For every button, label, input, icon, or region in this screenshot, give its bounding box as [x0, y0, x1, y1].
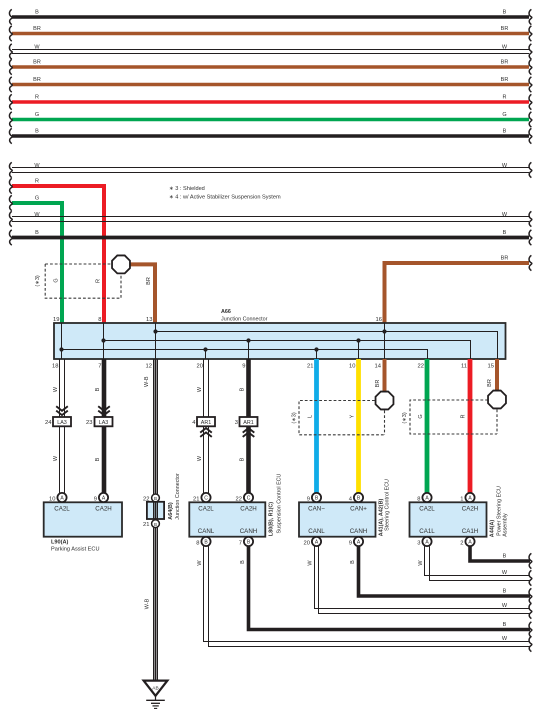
svg-text:24: 24: [45, 420, 52, 426]
svg-text:(∗3): (∗3): [35, 275, 41, 286]
svg-text:B: B: [154, 522, 157, 527]
internal wire drop to A66 pin 20: [205, 350, 207, 360]
terminal 8 (B) suspension: [196, 537, 210, 546]
wire BR (top group row 4): [9, 59, 531, 74]
svg-text:W: W: [197, 455, 203, 461]
internal wire drop to A66 pin 21: [316, 350, 318, 360]
bus line 3 inside A66 (CANL bus, pins 19-20-21-22): [62, 350, 428, 360]
ground symbol AB: [144, 681, 168, 709]
wire B (top group row 1): [9, 9, 531, 24]
label A44(A) Power Steering ECU Assembly: [489, 486, 508, 537]
junction dot at (155.5,331.5): [153, 329, 157, 333]
terminal 9 (B) steering: [307, 493, 321, 502]
wire B from suspension terminal 7 to right edge: [240, 546, 532, 637]
junction connector A66 box: [54, 309, 506, 359]
wire BR from shield octagon to junction pin 13: [126, 264, 155, 323]
svg-text:LA3: LA3: [57, 420, 67, 426]
wire W (group 2 row 4): [9, 211, 531, 226]
svg-text:3: 3: [235, 420, 238, 426]
wire Y pin 10 to steering ECU: [356, 359, 361, 493]
svg-text:16: 16: [376, 317, 382, 323]
svg-text:BR: BR: [375, 380, 381, 388]
svg-text:CANL: CANL: [198, 528, 215, 535]
svg-text:BR: BR: [487, 379, 493, 387]
svg-text:2: 2: [460, 540, 463, 546]
shield ground symbol (octagon) top section: [112, 255, 130, 273]
wire B (top group row 8): [9, 128, 531, 143]
junction dot at (248.5,340.5): [246, 338, 250, 342]
svg-text:L: L: [307, 415, 313, 418]
svg-text:R: R: [35, 178, 39, 184]
pin numbers below A66: [52, 364, 494, 370]
svg-text:L80(B), R1(C): L80(B), R1(C): [268, 502, 274, 536]
junction dot at (103.5,340.5): [101, 338, 105, 342]
svg-text:20: 20: [304, 540, 310, 546]
svg-text:21: 21: [193, 496, 199, 502]
svg-text:BR: BR: [33, 26, 41, 32]
shield dashed box (*3) around G and R wires (power steering): [402, 400, 497, 434]
wire R (group 2, turns down to junction pin 8): [9, 178, 104, 323]
svg-text:9: 9: [242, 364, 245, 370]
shield ground symbol (octagon) steering: [376, 392, 394, 410]
terminal 3 (A) power steering: [417, 537, 431, 546]
wire W from power steering terminal 3 to right edge: [418, 546, 532, 585]
svg-text:B: B: [154, 496, 157, 501]
wire G (top group row 7): [9, 112, 531, 127]
wire BR pin 14 to shield octagon: [375, 359, 385, 391]
svg-text:22: 22: [418, 364, 424, 370]
svg-text:W: W: [418, 560, 424, 566]
svg-text:Parking Assist ECU: Parking Assist ECU: [51, 547, 100, 553]
svg-text:CA2H: CA2H: [462, 506, 479, 513]
svg-text:AR1: AR1: [201, 420, 212, 426]
svg-text:20: 20: [197, 364, 203, 370]
wire B pin 9 to suspension ECU: [239, 359, 248, 493]
svg-text:CA2H: CA2H: [240, 506, 257, 513]
svg-text:W: W: [502, 636, 508, 642]
internal wire through A66 pins 8/7: [103, 323, 105, 359]
svg-text:Junction Connector: Junction Connector: [175, 473, 181, 520]
svg-text:B: B: [95, 387, 101, 391]
svg-text:Suspension Control ECU: Suspension Control ECU: [276, 473, 282, 533]
svg-text:CAN−: CAN−: [308, 506, 325, 513]
svg-text:BR: BR: [33, 77, 41, 83]
svg-text:CAN+: CAN+: [350, 506, 367, 513]
svg-text:A64(B): A64(B): [168, 502, 174, 520]
svg-text:19: 19: [53, 317, 59, 323]
svg-text:R: R: [503, 94, 507, 100]
wire R pin 11 to power steering ECU: [468, 359, 473, 493]
terminal 9 (A) steering: [349, 537, 363, 546]
label L90(A) Parking Assist ECU: [51, 540, 100, 553]
svg-text:(∗3): (∗3): [402, 412, 408, 423]
svg-text:23: 23: [86, 420, 92, 426]
svg-text:BR: BR: [501, 26, 509, 32]
ECU box A44(A) Power Steering ECU Assembly: [410, 502, 487, 536]
svg-text:CA1H: CA1H: [462, 528, 479, 535]
svg-text:∗ 3 : Shielded: ∗ 3 : Shielded: [169, 186, 205, 192]
pin numbers on top of A66: [53, 317, 382, 323]
junction dot at (316.5,349.5): [314, 347, 318, 351]
svg-text:W: W: [502, 163, 508, 169]
svg-text:∗ 4 : w/ Active Stabilizer Sus: ∗ 4 : w/ Active Stabilizer Suspension Sy…: [169, 195, 281, 201]
wire BR (from right edge, turns down to junction pin 16): [385, 255, 532, 323]
internal wire through A66 pins 13/12: [155, 323, 157, 359]
label L80(B) R1(C) Suspension Control ECU: [268, 473, 282, 536]
bus line 2 inside A66 (CANH bus, pins 8-9-10-11): [104, 341, 471, 360]
svg-text:G: G: [35, 195, 39, 201]
svg-text:W: W: [197, 560, 203, 566]
svg-text:G: G: [53, 278, 59, 282]
shield dashed box (*3) around L and Y wires: [291, 401, 384, 435]
svg-text:8: 8: [98, 317, 101, 323]
svg-text:W: W: [34, 163, 40, 169]
svg-text:B: B: [35, 128, 39, 134]
wire BR (top group row 2): [9, 26, 531, 41]
svg-text:CA1L: CA1L: [419, 528, 435, 535]
svg-text:12: 12: [146, 364, 152, 370]
wire W (top group row 3): [9, 44, 531, 59]
connector AR1 pin 3 (B wire): [235, 417, 258, 437]
svg-text:7: 7: [239, 540, 242, 546]
internal wire drop to A66 pin 10: [358, 341, 360, 360]
junction dot at (61.5,349.5): [59, 347, 63, 351]
wire G pin 22 to power steering ECU: [425, 359, 430, 493]
svg-text:Junction Connector: Junction Connector: [221, 317, 268, 323]
svg-text:G: G: [418, 414, 424, 418]
svg-text:W: W: [307, 560, 313, 566]
svg-text:21: 21: [143, 522, 149, 528]
svg-text:W: W: [53, 386, 59, 392]
terminal 8 (A) power steering: [417, 493, 431, 502]
wire W-B through A64(B): [154, 502, 158, 519]
svg-text:W: W: [502, 570, 508, 576]
svg-text:R: R: [95, 279, 101, 283]
svg-text:W-B: W-B: [144, 598, 150, 609]
svg-text:W: W: [53, 455, 59, 461]
svg-text:B: B: [350, 560, 356, 564]
terminal 7 (B) suspension: [239, 537, 253, 546]
wire R (top group row 6): [9, 94, 531, 109]
junction dot at (384.5,331.5): [382, 329, 386, 333]
svg-text:G: G: [35, 112, 39, 118]
svg-text:R: R: [460, 414, 466, 418]
wire W from suspension terminal 8 to right edge: [197, 546, 532, 651]
svg-text:B: B: [503, 588, 507, 594]
svg-text:W: W: [34, 44, 40, 50]
internal wire drop to A66 pin 9: [248, 341, 250, 360]
wire W pin 18 to parking assist ECU: [53, 359, 65, 493]
ECU box A41(A),A42(B) Steering Control ECU: [299, 502, 376, 536]
svg-text:C: C: [247, 496, 251, 502]
ECU box L80(B),R1(C) Suspension Control ECU: [189, 502, 265, 536]
svg-text:15: 15: [488, 364, 494, 370]
svg-text:G: G: [502, 112, 506, 118]
svg-text:22: 22: [236, 496, 242, 502]
wire B from power steering terminal 2 to right edge: [470, 546, 532, 568]
svg-text:11: 11: [461, 364, 467, 370]
shield dashed box (*3) around G and R wires: [35, 264, 121, 298]
terminal 2 (A) power steering: [460, 537, 474, 546]
wire G (group 2, turns down to junction pin 19): [9, 195, 62, 323]
svg-text:8: 8: [196, 540, 199, 546]
wire BR (top group row 5): [9, 77, 531, 92]
terminal 20 (A) steering: [304, 537, 322, 546]
terminal 22 (B) of A64(B): [143, 494, 159, 502]
internal wire through A66 pins 19/18: [61, 323, 63, 359]
svg-text:10: 10: [49, 496, 55, 502]
svg-text:AB: AB: [152, 686, 158, 692]
svg-text:AR1: AR1: [243, 420, 254, 426]
svg-text:B: B: [503, 622, 507, 628]
svg-text:CA2L: CA2L: [54, 506, 70, 513]
svg-text:B: B: [239, 457, 245, 461]
svg-text:B: B: [503, 553, 507, 559]
connector LA3 pin 23 (B wire): [86, 406, 112, 426]
svg-text:9: 9: [94, 496, 97, 502]
junction dot at (205.5,349.5): [203, 347, 207, 351]
bus line 1 inside A66 (shield bus, pins 13-16-14-15): [156, 332, 498, 360]
svg-text:CANL: CANL: [308, 528, 325, 535]
svg-text:Assembly: Assembly: [502, 513, 508, 537]
svg-text:BR: BR: [33, 59, 41, 65]
svg-text:1: 1: [460, 496, 463, 502]
terminal 9 (A) parking assist: [94, 493, 108, 502]
wire W (group 2 row 1): [9, 162, 531, 177]
svg-text:W: W: [34, 212, 40, 218]
svg-text:22: 22: [143, 496, 149, 502]
terminal 1 (A) power steering: [460, 493, 474, 502]
svg-text:BR: BR: [501, 255, 509, 261]
svg-text:W: W: [197, 386, 203, 392]
svg-text:A44(A): A44(A): [489, 520, 495, 538]
svg-text:B: B: [503, 128, 507, 134]
svg-text:Steering Control ECU: Steering Control ECU: [384, 479, 390, 531]
svg-text:9: 9: [349, 540, 352, 546]
svg-text:21: 21: [307, 364, 313, 370]
svg-text:3: 3: [417, 540, 420, 546]
svg-text:B: B: [95, 457, 101, 461]
ECU box L90(A) Parking Assist ECU: [44, 502, 122, 536]
svg-text:Y: Y: [349, 414, 355, 418]
svg-text:W: W: [502, 44, 508, 50]
shield ground symbol (octagon) power steering: [488, 391, 506, 409]
svg-text:BR: BR: [501, 59, 509, 65]
svg-text:B: B: [503, 9, 507, 15]
svg-text:C: C: [204, 496, 208, 502]
svg-text:9: 9: [307, 496, 310, 502]
label A41(A) A42(B) Steering Control ECU: [378, 479, 390, 536]
svg-text:CANH: CANH: [240, 528, 258, 535]
terminal 21 (B) of A64(B): [143, 520, 159, 528]
note *3 shielded / *4 active stabilizer: [169, 186, 281, 201]
svg-text:B: B: [35, 230, 39, 236]
connector AR1 pin 4 (W wire): [192, 417, 215, 437]
label A64(B) junction connector: [168, 473, 181, 520]
terminal 21 (C) suspension: [193, 493, 211, 502]
svg-text:(∗3): (∗3): [291, 412, 297, 423]
svg-text:W-B: W-B: [144, 376, 150, 387]
svg-text:10: 10: [349, 364, 355, 370]
terminal 10 (A) parking assist: [49, 493, 67, 502]
internal wire through A66 pins 16/14: [384, 323, 386, 359]
svg-text:LA3: LA3: [99, 420, 109, 426]
terminal 4 (B) steering: [349, 493, 363, 502]
svg-text:B: B: [239, 387, 245, 391]
wire BR pin 15 to shield octagon: [487, 359, 497, 390]
svg-text:A66: A66: [221, 309, 231, 315]
svg-text:B: B: [240, 560, 246, 564]
terminal 22 (C) suspension: [236, 493, 254, 502]
svg-text:W: W: [502, 212, 508, 218]
junction connector A64(B) box: [147, 502, 164, 519]
svg-text:CA2L: CA2L: [198, 506, 214, 513]
wire L pin 21 to steering ECU: [314, 359, 319, 493]
wire W pin 20 to suspension ECU: [197, 359, 209, 493]
wire B pin 7 to parking assist ECU: [95, 359, 104, 493]
svg-text:CANH: CANH: [350, 528, 368, 535]
junction dot at (358.5,340.5): [356, 338, 360, 342]
svg-text:BR: BR: [501, 77, 509, 83]
wire W-B pin 12 down to A64(B): [144, 359, 158, 494]
svg-text:14: 14: [375, 364, 382, 370]
svg-text:W: W: [502, 603, 508, 609]
svg-text:CA2H: CA2H: [95, 506, 112, 513]
svg-text:8: 8: [417, 496, 420, 502]
svg-text:B: B: [35, 9, 39, 15]
svg-text:B: B: [503, 230, 507, 236]
svg-text:L90(A): L90(A): [51, 540, 69, 546]
wire W from steering terminal 20 to right edge: [307, 546, 532, 618]
wire B from steering terminal 9 to right edge: [350, 546, 532, 603]
svg-text:18: 18: [52, 364, 58, 370]
wire W-B from A64(B) to ground: [144, 528, 157, 680]
svg-text:R: R: [35, 94, 39, 100]
svg-text:13: 13: [146, 317, 152, 323]
svg-text:CA2L: CA2L: [419, 506, 435, 513]
svg-text:7: 7: [98, 364, 101, 370]
svg-text:BR: BR: [146, 277, 152, 285]
wire B (group 2 row 5): [9, 230, 531, 245]
connector LA3 pin 24 (W wire): [45, 406, 71, 426]
